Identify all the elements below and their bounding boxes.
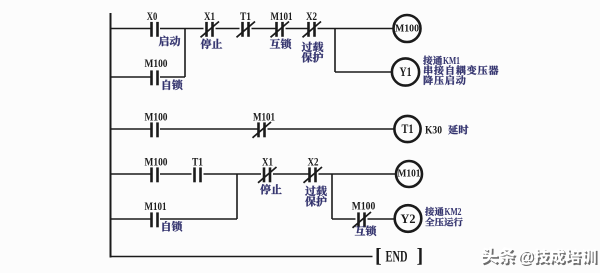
svg-text:Y2: Y2 (401, 211, 416, 226)
coil M100 (394, 15, 421, 42)
svg-text:M100: M100 (145, 112, 168, 124)
label baohu rung3 line2 (305, 196, 327, 206)
label zisuo (self-hold) branch1 (163, 80, 183, 90)
label baohu (protect) line2 (302, 52, 324, 62)
contact T1 (NO) (195, 167, 201, 182)
label Y2 note line2 (425, 217, 463, 226)
watermark toutiao @jicheng-peixun (483, 249, 598, 268)
contact X0 (NO, start button) (152, 22, 158, 37)
wire rung2 seg1 (111, 128, 152, 130)
label guozai rung3 line1 (305, 186, 327, 196)
svg-text:X1: X1 (204, 11, 215, 23)
wire rung2 seg3 (268, 128, 395, 130)
wire branch2 seg1 (111, 218, 152, 220)
label yanshi (delay) (448, 125, 468, 135)
label qidong (start) (159, 36, 180, 46)
svg-text:M101: M101 (253, 112, 275, 124)
wire rung1 seg4 (252, 28, 277, 30)
wire branch1 seg2 (160, 76, 185, 78)
wire branch1 vertical (184, 29, 186, 78)
coil T1 timer (394, 116, 420, 142)
contact X2 (NC, overload) (303, 22, 322, 38)
wire Y2-branch seg2 (368, 218, 395, 220)
wire rung1 seg2 (160, 28, 204, 30)
coil M101 (396, 161, 422, 187)
wire rung1 seg6 (318, 28, 394, 30)
contact M100 (NO, self-hold) (152, 70, 158, 85)
wire branch2 seg2 (160, 218, 237, 220)
wire branch1 seg1 (111, 76, 152, 78)
wire rung2 seg2 (160, 128, 259, 130)
coil Y2 (395, 205, 422, 232)
svg-text:T1: T1 (240, 11, 251, 23)
wire rung3 seg3 (204, 173, 262, 175)
contact M100 (NC, interlock) (353, 212, 372, 228)
wire rung3 seg5 (319, 173, 397, 175)
svg-text:T1: T1 (192, 157, 203, 169)
svg-text:]: ] (417, 245, 424, 267)
svg-text:X1: X1 (262, 157, 273, 169)
wire Y2-branch vertical (331, 174, 333, 219)
label guozai (overload) line1 (302, 42, 324, 52)
wire rung3 seg4 (273, 173, 310, 175)
label zisuo branch2 (162, 221, 182, 231)
wire Y2-branch seg1 (332, 218, 356, 220)
contact M101 (NO, self-hold) (152, 212, 158, 227)
wire rung1 seg5 (286, 28, 309, 30)
contact X1 (NC, stop) (201, 22, 220, 38)
wire rung3 seg2 (160, 173, 192, 175)
svg-text:KM2: KM2 (445, 207, 462, 218)
label Y1 note line3 (424, 75, 466, 85)
svg-text:T1: T1 (402, 122, 414, 136)
wire rung1 seg1 (111, 28, 152, 30)
svg-text:X2: X2 (308, 157, 319, 169)
label husuo (interlock) (270, 39, 291, 49)
contact X1 (NC, stop) (258, 167, 277, 183)
label Y2 note line1 jietong (425, 207, 444, 216)
END instruction (375, 245, 423, 267)
label tingzhi rung3 (260, 184, 282, 194)
wire branch2 vertical (236, 174, 238, 219)
svg-text:M100: M100 (395, 23, 419, 35)
wire END rung (111, 256, 373, 258)
contact M100 (NO) (152, 167, 158, 182)
svg-text:K30: K30 (425, 124, 442, 136)
wire Y1-branch horizontal (335, 71, 392, 73)
label Y1 note line1 jietong (423, 56, 442, 65)
contact M101 (NC) (253, 122, 272, 138)
svg-text:M100: M100 (145, 58, 168, 70)
svg-text:M101: M101 (398, 169, 421, 180)
wire rung1 seg3 (216, 28, 240, 30)
contact M100 (NO) (152, 122, 158, 137)
svg-text:@: @ (518, 248, 534, 266)
wire rung3 seg1 (111, 173, 152, 175)
wire Y1-branch vertical (334, 29, 336, 73)
label tingzhi (stop) (201, 39, 223, 49)
svg-text:M100: M100 (352, 201, 376, 213)
contact T1 (NC) (237, 22, 256, 38)
label Y1 note line2 (424, 65, 498, 75)
svg-text:M101: M101 (271, 11, 293, 23)
svg-text:M101: M101 (145, 201, 167, 213)
left power rail (110, 13, 112, 258)
svg-text:Y1: Y1 (400, 65, 412, 79)
svg-text:END: END (386, 249, 408, 266)
contact X2 (NC, overload) (304, 167, 323, 183)
contact M101 (NC, interlock) (271, 22, 290, 38)
svg-text:M100: M100 (145, 157, 168, 169)
svg-text:X2: X2 (306, 11, 317, 23)
coil Y1 (392, 58, 419, 85)
svg-text:[: [ (375, 245, 382, 267)
label husuo interlock Y2 (355, 226, 376, 236)
svg-text:X0: X0 (147, 11, 158, 23)
